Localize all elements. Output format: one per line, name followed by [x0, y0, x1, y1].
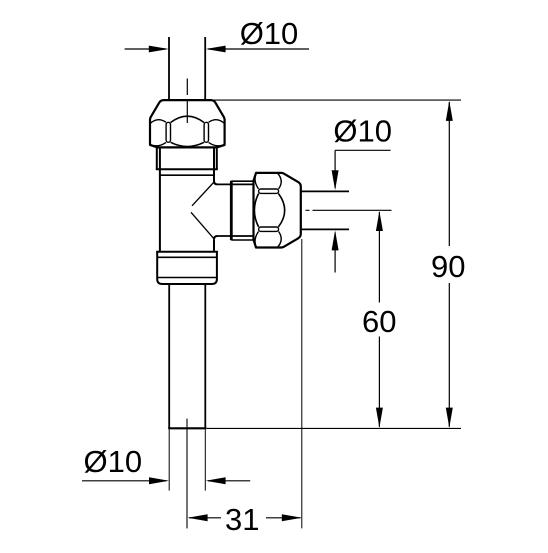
arm centerline	[306, 209, 310, 211]
valve body	[160, 147, 218, 251]
svg-text:60: 60	[362, 304, 396, 339]
lower collar	[156, 252, 218, 284]
centerline dash inside top nut	[186, 101, 188, 123]
outlet tube (bottom)	[168, 284, 170, 428]
side arm nut	[254, 173, 301, 248]
top compression nut	[150, 100, 225, 147]
dimension 31	[188, 239, 302, 537]
dimension top diameter 10	[125, 16, 309, 52]
bottom centerline	[186, 419, 188, 529]
svg-text:Ø10: Ø10	[83, 444, 142, 479]
side arm tube (cut off right)	[301, 190, 349, 192]
svg-text:90: 90	[431, 249, 465, 284]
body internal diagonals	[192, 182, 215, 206]
dimension 90	[207, 100, 466, 428]
side arm neck	[218, 183, 254, 185]
centerline tick above top nut	[186, 79, 188, 96]
collar under top nut	[156, 147, 218, 169]
svg-text:Ø10: Ø10	[240, 16, 299, 51]
dimension bottom diameter 10	[82, 430, 250, 491]
inlet tube (top, cut off)	[168, 37, 170, 100]
svg-text:Ø10: Ø10	[333, 114, 392, 149]
dimension right diameter 10	[332, 114, 392, 273]
dimension 60	[362, 211, 396, 428]
compression ring on arm	[231, 181, 254, 240]
svg-text:31: 31	[225, 502, 259, 537]
